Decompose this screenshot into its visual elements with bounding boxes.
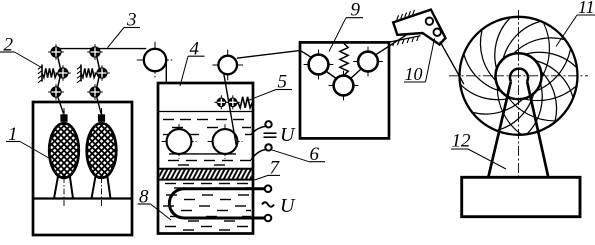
spring of nip rollers 5: [238, 97, 253, 108]
wire: thread feed line top-left: [53, 48, 146, 50]
wire: thread bottom-roller to right bobbin: [97, 96, 102, 114]
spring 2 anchor wall (left): [41, 65, 43, 82]
wheel 11 centerlines: [449, 75, 588, 77]
svg-text:10: 10: [405, 64, 423, 84]
stand 12 left leg: [488, 82, 511, 178]
clamp fixed jaw hatching upper: [397, 15, 399, 21]
guide roller above tank right: [212, 64, 243, 66]
wheel 11 blades: [527, 83, 542, 134]
spring 2 (right compensator spring): [81, 68, 96, 77]
guide roller top (right trio): [87, 51, 103, 53]
clamp fixed jaw hatching lower: [393, 41, 395, 46]
AC symbol ~: [262, 202, 274, 207]
clamp pin lower: [434, 29, 441, 36]
guide roller above tank left: [137, 59, 173, 61]
tension roller middle (right trio): [94, 72, 110, 74]
svg-text:U: U: [280, 195, 296, 217]
wire: thread S-path left trio: [58, 56, 61, 89]
electrode terminal bottom (6): [265, 144, 271, 150]
submerged roller left: [162, 141, 197, 143]
submerged roller right: [208, 141, 243, 143]
wheel 11 hub centerlines: [494, 75, 544, 77]
liquid level dashes: [163, 119, 174, 121]
electrode lead top: [251, 126, 266, 134]
tension roller middle (left trio): [55, 72, 71, 74]
heater terminal bottom: [265, 215, 272, 222]
wire: thread bottom-roller to left bobbin: [58, 96, 64, 114]
creel box frame (holds packages 1): [33, 102, 132, 235]
wheel 11 rim: [460, 17, 578, 135]
guide roller bottom (left trio): [48, 91, 64, 93]
roller in box 9 top-left: [304, 64, 334, 66]
creel shelf: [33, 197, 132, 199]
roller in box 9 bottom-middle: [329, 85, 359, 87]
heater 8 (U-shaped tube): [169, 189, 268, 218]
stand 12 base: [462, 177, 580, 216]
wheel 11 hub circle: [496, 53, 542, 99]
nip roller 5 (left): [214, 101, 228, 103]
svg-text:U: U: [280, 124, 296, 146]
roller in box 9 top-right: [353, 61, 383, 63]
spring 2 (left compensator spring): [42, 68, 57, 77]
clamp pin upper: [426, 18, 433, 25]
clamp fixed jaw line lower: [390, 36, 421, 42]
guide roller top (left trio): [48, 51, 64, 53]
partition 7 (perforated plate, hatched): [158, 169, 253, 180]
clamp 10 body (bent lever): [393, 10, 445, 45]
wire: thread S-path right trio: [97, 56, 100, 89]
bobbin package 1 (right): [101, 108, 103, 207]
wire: thread roller2 to box 9: [237, 50, 302, 58]
nip roller 5 (right): [226, 101, 240, 103]
stand 12 right leg: [527, 82, 548, 178]
wire: thread up through nip to roller 2: [224, 74, 236, 145]
bobbin package 1 (left): [63, 108, 65, 207]
spring in box 9: [340, 44, 348, 76]
tensioning box 9: [300, 42, 389, 138]
electrode terminal top (6): [265, 121, 271, 127]
wire: thread down into tank: [165, 60, 167, 142]
water surface line: [158, 111, 253, 113]
wire: thread under submerged rollers: [169, 153, 236, 155]
tank 4 (impregnation bath): [158, 83, 253, 234]
spring 2 anchor wall (right): [80, 65, 82, 82]
wire: thread wrap segments in box 9: [300, 34, 409, 80]
heater terminal top: [265, 185, 272, 192]
electrode lead bottom: [251, 149, 266, 159]
electrode bars =: [264, 132, 277, 134]
wheel 11 shaft arch: [510, 69, 528, 82]
wire: thread clamp to wheel: [440, 42, 464, 85]
guide roller bottom (right trio): [87, 91, 103, 93]
